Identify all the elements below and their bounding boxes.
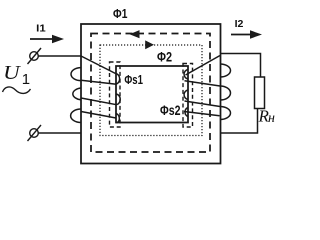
secondary big arc 2 <box>220 86 231 100</box>
primary crossing 3 <box>81 112 116 119</box>
secondary small arc 1 <box>184 70 188 80</box>
primary big arc 1 <box>71 68 81 81</box>
svg-text:Φs1: Φs1 <box>124 72 143 87</box>
primary crossing 2 <box>81 98 117 105</box>
primary winding W1 <box>71 56 121 123</box>
transformer core outer outline <box>81 24 221 164</box>
secondary small arc 3 <box>185 108 188 117</box>
wire from bottom terminal to core <box>38 132 81 134</box>
svg-text:1: 1 <box>22 71 30 88</box>
svg-text:I1: I1 <box>36 22 46 34</box>
wire from secondary bottom to load <box>220 109 258 134</box>
secondary big arc 3 <box>220 107 231 120</box>
secondary crossing 1 <box>185 81 221 86</box>
leakage flux loop Phi_s1 (dashed) <box>110 62 121 127</box>
input terminal top (circle with slash) <box>28 48 42 64</box>
load resistor R_H <box>255 77 265 109</box>
svg-text:U: U <box>3 62 21 84</box>
secondary winding W2 <box>184 56 231 120</box>
primary big arc 3 <box>71 109 81 123</box>
secondary crossing 2 <box>185 101 221 107</box>
input terminal bottom (circle with slash) <box>28 125 42 141</box>
primary small arc 2 <box>116 94 120 105</box>
svg-text:н: н <box>268 111 275 126</box>
wire from top terminal to core <box>38 55 81 57</box>
svg-text:Φs2: Φs2 <box>160 102 181 118</box>
primary small arc 3 <box>116 114 120 124</box>
current I1 arrow <box>30 35 64 43</box>
arrowhead of Phi2 flux (pointing right) <box>145 40 154 49</box>
primary big arc 2 <box>73 88 81 100</box>
core window (inner rectangle) <box>116 66 188 123</box>
leakage flux loop Phi_s2 (dashed) <box>183 64 193 128</box>
wire from secondary top to load <box>220 54 261 78</box>
secondary small arc 2 <box>184 90 188 100</box>
flux path Phi1 (dashed loop) <box>91 34 210 153</box>
secondary big arc 1 <box>220 64 231 77</box>
secondary top exit crossing <box>186 56 221 76</box>
current I2 arrow <box>231 30 262 38</box>
svg-text:I2: I2 <box>235 18 244 30</box>
flux path Phi2 (dotted loop) <box>100 45 202 136</box>
primary crossing 1 <box>81 80 117 84</box>
AC tilde under U1 <box>3 87 31 94</box>
primary small arc 1 <box>116 74 120 85</box>
arrowhead of Phi1 flux (pointing left) <box>130 30 140 38</box>
svg-text:Φ2: Φ2 <box>157 49 172 65</box>
svg-text:Φ1: Φ1 <box>113 6 128 21</box>
secondary crossing 3 <box>184 112 220 116</box>
turn crossing from top terminal <box>81 56 116 74</box>
